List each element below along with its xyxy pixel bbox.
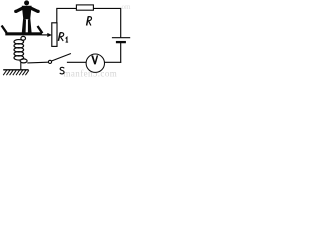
switch S bbox=[48, 54, 71, 64]
slider arrow bbox=[42, 33, 52, 37]
person bbox=[14, 0, 40, 32]
label R bbox=[87, 16, 92, 25]
battery bbox=[112, 38, 130, 42]
wire: switch to voltmeter bbox=[67, 61, 86, 63]
ground bbox=[3, 70, 29, 75]
voltmeter V bbox=[86, 54, 104, 72]
label R1 bbox=[58, 33, 68, 43]
platform bbox=[2, 26, 43, 36]
wire: right vertical lower (battery to bottom corner) bbox=[120, 42, 122, 63]
wire: right vertical upper + top wire right segment bbox=[93, 8, 120, 37]
label S bbox=[60, 67, 64, 74]
resistor R bbox=[76, 5, 93, 10]
wire: spring base to switch bbox=[27, 61, 48, 64]
wire: voltmeter to right corner bbox=[105, 61, 122, 63]
rheostat R1 bbox=[52, 23, 57, 47]
spring bbox=[14, 36, 27, 69]
svg-text:om: om bbox=[122, 3, 132, 11]
wire: top wire left segment + left vertical bbox=[57, 8, 77, 23]
